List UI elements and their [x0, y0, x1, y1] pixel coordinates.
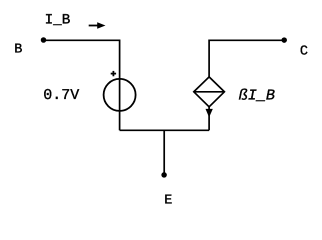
terminal node B: [41, 37, 47, 43]
junction dot / terminal node E: [161, 172, 167, 178]
wire B terminal to bottom-left corner (through V1): [44, 40, 120, 130]
svg-text:0.7V: 0.7V: [43, 87, 79, 104]
svg-text:I_B: I_B: [45, 12, 71, 28]
svg-text:B: B: [14, 43, 22, 58]
svg-text:C: C: [300, 44, 308, 59]
svg-text:E: E: [164, 194, 172, 209]
wire bottom-right corner up through diamond to C terminal: [209, 40, 284, 130]
arrowhead of dependent source (points down): [206, 109, 213, 118]
voltage source V1 (0.7V): [104, 79, 136, 111]
wire bottom horizontal: [120, 129, 210, 131]
dependent current source (diamond): [194, 77, 225, 107]
terminal node C: [281, 37, 287, 43]
current direction arrow for I_B: [89, 22, 106, 28]
svg-text:ßI_B: ßI_B: [239, 86, 275, 104]
wire E stub from junction: [163, 130, 165, 175]
plus sign of V1: [111, 71, 116, 76]
